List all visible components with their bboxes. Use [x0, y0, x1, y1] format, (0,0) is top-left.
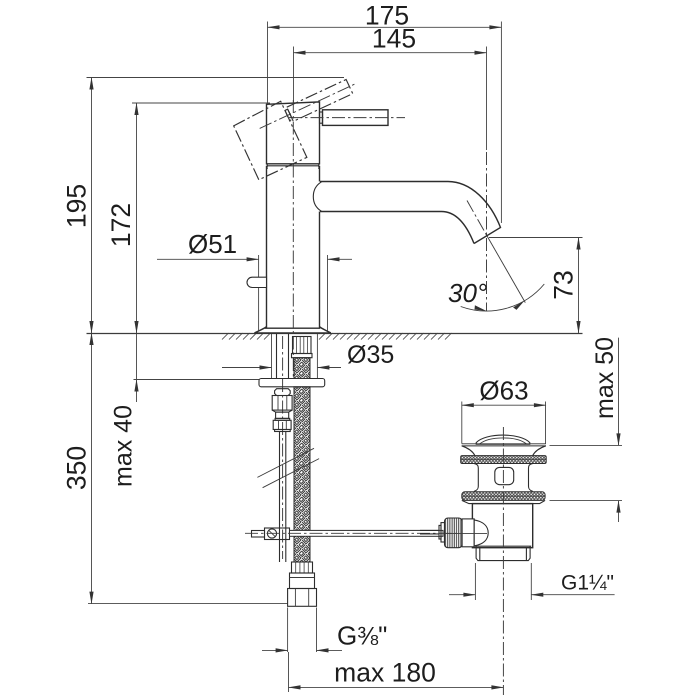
dimension G1 1/4 thread — [449, 563, 615, 600]
hose end fitting G3/8 — [288, 562, 317, 606]
pop-up rod knob on body — [247, 277, 267, 287]
svg-text:max 180: max 180 — [334, 658, 436, 688]
faucet head cap — [267, 102, 320, 164]
dimension 175 (overall projection) — [268, 1, 502, 224]
drain centerline — [502, 427, 504, 695]
pull rod centerline — [282, 336, 284, 559]
dimension diameter 63 (drain flange) — [462, 376, 546, 444]
svg-text:max 40: max 40 — [110, 405, 138, 487]
svg-text:G⅜": G⅜" — [337, 621, 387, 651]
upper seal ring — [461, 456, 547, 464]
dimension 195 (height to handle) — [62, 78, 92, 334]
svg-text:Ø35: Ø35 — [347, 341, 394, 369]
pull rod clamp with thumbscrew — [252, 528, 290, 540]
dimension 350 (height below handle ref) — [62, 333, 288, 604]
braided hose upper section — [294, 358, 310, 379]
svg-text:195: 195 — [62, 184, 92, 228]
break marks — [257, 448, 319, 487]
faucet body column — [267, 166, 320, 328]
dimension diameter 51 (body) — [157, 229, 352, 331]
drain flange (trumpet) — [462, 444, 546, 456]
svg-text:30°: 30° — [448, 278, 487, 308]
lower seal ring — [462, 492, 545, 501]
drain valve body — [472, 504, 532, 548]
svg-text:350: 350 — [62, 446, 92, 490]
pop-up cap dome — [476, 435, 530, 444]
svg-text:max 50: max 50 — [591, 337, 619, 419]
dimension max 180 (drain offset) — [289, 652, 504, 692]
spout — [313, 182, 500, 244]
svg-text:145: 145 — [372, 24, 416, 54]
svg-text:73: 73 — [549, 270, 579, 299]
dimension diameter 35 (hole) — [222, 341, 394, 369]
threaded shank tube — [277, 334, 289, 379]
lower flange taper — [462, 500, 545, 503]
svg-text:172: 172 — [106, 203, 136, 247]
dimension max 50 (basin thickness) — [550, 337, 623, 522]
linkage ball joint housing — [420, 518, 488, 548]
countertop deck line — [87, 333, 583, 340]
faucet body centerline — [292, 100, 294, 378]
braided hose lower section — [294, 387, 310, 562]
dimension 172 (height to head top) — [106, 103, 137, 333]
drain body upper with overflow slot — [474, 464, 533, 492]
supply hose top fitting — [292, 337, 313, 358]
mounting washer plate — [259, 379, 325, 387]
handle rod (lever) — [289, 110, 405, 126]
svg-text:Ø51: Ø51 — [188, 229, 237, 259]
pull rod fittings (nuts) — [272, 389, 292, 432]
dimension G3/8 thread — [262, 608, 387, 653]
head joint ring — [267, 164, 319, 169]
dimension 30 degrees (spray angle) — [448, 152, 544, 311]
extension line handle top — [87, 77, 345, 79]
dimension 73 (spout height above deck) — [489, 238, 583, 334]
svg-text:G1¼": G1¼" — [561, 572, 614, 595]
svg-text:Ø63: Ø63 — [479, 376, 528, 406]
dimension 145 (spout reach) — [294, 24, 487, 151]
horizontal linkage rod — [245, 530, 460, 536]
drain tailpipe G1 1/4 — [475, 546, 532, 560]
phantom handle raised 25 degrees — [233, 69, 377, 180]
extension line head top — [132, 102, 270, 104]
base flare — [255, 327, 331, 333]
pull rod lower section — [280, 432, 286, 563]
mounting hole edges (diameter 35 extension lines) — [272, 334, 318, 379]
dimension max 40 (deck thickness) — [110, 334, 260, 487]
